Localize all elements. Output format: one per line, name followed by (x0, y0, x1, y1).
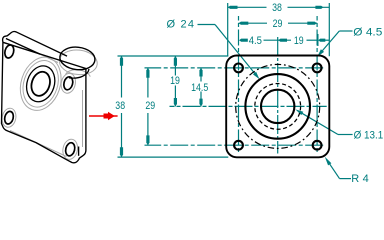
left dimension column 14.5 (200, 68, 202, 107)
svg-text:4.5: 4.5 (249, 35, 262, 47)
left dimension column 19 (174, 56, 176, 106)
tangent edge near right side (82, 90, 84, 147)
hole row centerline bottom (145, 144, 324, 146)
leader: diameter 24 (198, 25, 257, 76)
svg-text:R 4: R 4 (351, 173, 369, 185)
leader: diameter 13.1 (bore) (300, 112, 353, 135)
bolt hole top-left (iso) (4, 44, 16, 59)
plate bottom edge extension (left side) (118, 156, 229, 158)
silhouette of flange plate (2, 31, 86, 162)
svg-text:14.5: 14.5 (191, 82, 208, 94)
bolt hole top-right (313, 64, 322, 73)
fillet ring around front bore (inner) (17, 56, 64, 112)
svg-text:Ø 13.1: Ø 13.1 (354, 129, 384, 141)
plate outline (226, 56, 329, 158)
front right edge fragment (78, 147, 80, 156)
tangent ring around BL hole (0, 107, 17, 129)
svg-text:Ø 4.5: Ø 4.5 (353, 26, 382, 38)
leader: R 4 (corner radius) (327, 160, 351, 179)
front face top edge fragment (6, 39, 40, 55)
hole row centerline top (145, 67, 324, 69)
boss base rim arc (69, 69, 89, 78)
bolt hole top-right (iso) (63, 76, 75, 91)
fillet circle (dash-dot) (236, 64, 320, 148)
left dimension column 38 (121, 56, 123, 157)
boss cap rim (59, 45, 96, 71)
boss base fillet arc (66, 70, 91, 77)
bolt hole bottom-left (234, 141, 243, 150)
bolt hole top-left (234, 64, 243, 73)
teal centerlines / extension lines (118, 3, 330, 157)
fillet ring around front bore (outer) (14, 52, 68, 116)
svg-text:19: 19 (170, 75, 180, 87)
hole column centerline left (238, 16, 240, 152)
counterbore ring front face (22, 62, 59, 105)
left edge extension (vertical, top-left of view) (227, 3, 229, 56)
svg-text:Ø 24: Ø 24 (167, 18, 195, 30)
tangent line under top band (40, 54, 58, 62)
top dimension row 1 : 38 (228, 6, 330, 8)
svg-text:29: 29 (273, 18, 283, 30)
top dimension row 3 : 4.5 and 19 (264, 34, 330, 46)
tangent ring around TR hole (59, 72, 77, 94)
gray tangent edges (0, 48, 98, 161)
tangent ring around BR hole (61, 138, 79, 161)
plate top edge extension (left side) (118, 55, 229, 57)
bolt hole bottom-right (iso) (64, 142, 76, 157)
horizontal centerline (170, 105, 327, 107)
svg-text:38: 38 (115, 100, 125, 112)
top dimension row 2 : 29 (239, 22, 318, 24)
hole column centerline right (316, 16, 318, 152)
bolt hole bottom-left (iso) (3, 110, 14, 124)
interior black edges (3, 39, 89, 157)
left dimension column 29 (147, 68, 149, 145)
boss circle (24) (245, 74, 310, 139)
svg-text:29: 29 (145, 100, 155, 112)
svg-text:19: 19 (294, 35, 304, 47)
bolt hole bottom-right (313, 141, 322, 150)
tangent line above bottom edge (10, 131, 67, 157)
vertical centerline (277, 36, 279, 154)
bore circle (13.1) (261, 90, 294, 123)
right edge extension (vertical, top-right) (328, 3, 330, 56)
hidden circle (dashed) (255, 84, 301, 130)
front bore (through hole) (28, 69, 53, 98)
leader: diameter 4.5 (top right hole) (321, 31, 353, 53)
boss cap chamfer ring (58, 48, 98, 76)
svg-text:38: 38 (272, 2, 282, 14)
